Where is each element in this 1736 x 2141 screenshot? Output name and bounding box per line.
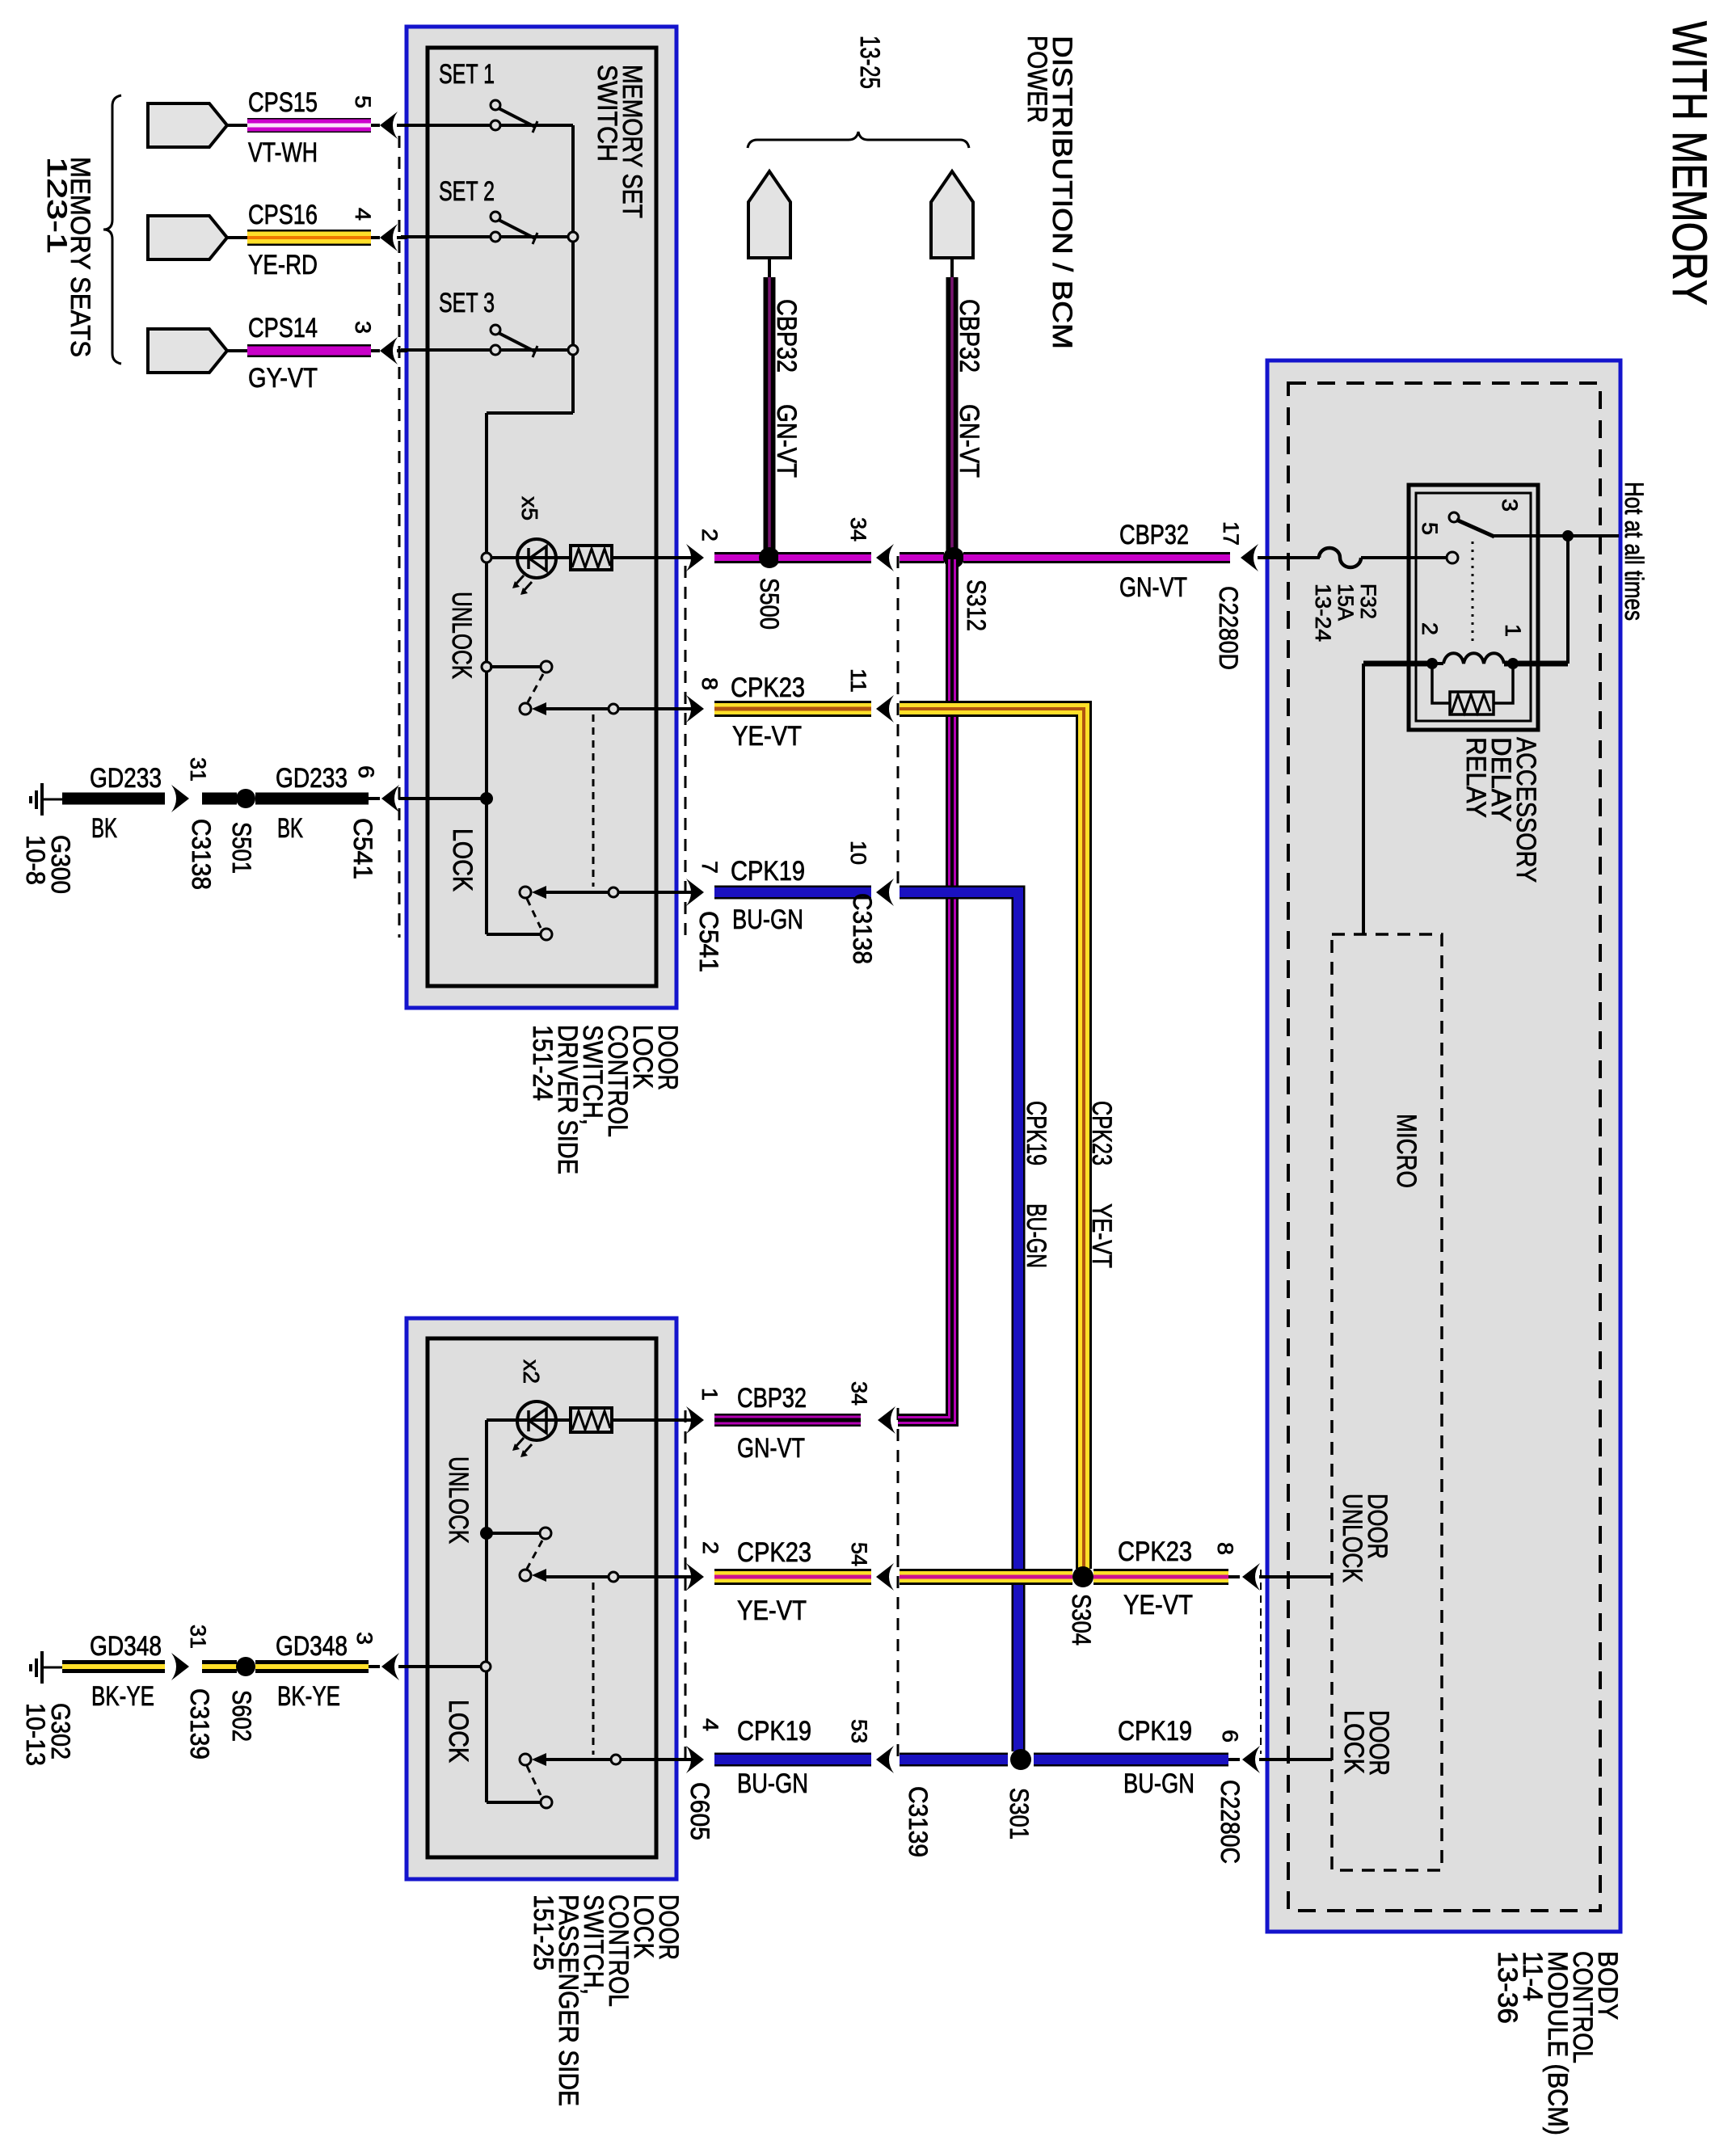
- wire CPK19 corner down: [900, 892, 1018, 1751]
- SET3 wire: [401, 348, 573, 352]
- svg-text:3: 3: [352, 1632, 377, 1645]
- BCM outer box: [1267, 360, 1620, 1932]
- svg-text:3: 3: [1498, 499, 1522, 512]
- svg-text:C2280C: C2280C: [1216, 1780, 1245, 1864]
- wire DOOR UNLOCK stub: [1259, 1575, 1332, 1578]
- pentagon A stub: [768, 256, 771, 279]
- wire DOOR LOCK stub: [1259, 1758, 1332, 1761]
- svg-text:CBP32: CBP32: [954, 299, 984, 373]
- connector plane C541 right: [685, 566, 687, 938]
- svg-text:CPK19: CPK19: [731, 856, 805, 887]
- passenger unlock moving contact: [520, 1570, 531, 1581]
- wire GD348 stub: [202, 1660, 237, 1673]
- ground G300 symbol: [40, 783, 44, 816]
- svg-text:GN-VT: GN-VT: [1119, 572, 1187, 603]
- connector plane C3138: [897, 556, 900, 892]
- relay resistor legs: [1432, 664, 1513, 703]
- SET1 lower terminal: [491, 120, 500, 130]
- passenger resistor: [571, 1408, 612, 1432]
- svg-text:GD233: GD233: [90, 763, 162, 794]
- svg-text:2: 2: [698, 1541, 723, 1554]
- svg-text:BU-GN: BU-GN: [737, 1768, 808, 1799]
- svg-text:S312: S312: [962, 580, 991, 631]
- relay resistor: [1450, 692, 1494, 714]
- connector plane C3139: [897, 1408, 900, 1764]
- svg-text:Hot at all times: Hot at all times: [1620, 482, 1649, 621]
- passenger unlock option circle: [609, 1572, 618, 1582]
- svg-text:YE-VT: YE-VT: [1086, 1203, 1117, 1268]
- arrow pin6 into C541: [369, 797, 380, 800]
- SET3 blade: [499, 333, 535, 352]
- svg-text:BU-GN: BU-GN: [1123, 1768, 1195, 1799]
- svg-text:SET 2: SET 2: [439, 176, 495, 207]
- wire C2280D to fuse: [1258, 556, 1320, 559]
- passenger unlock wire: [546, 1575, 692, 1578]
- svg-text:151-25: 151-25: [528, 1894, 558, 1970]
- driver unlock wire: [546, 707, 692, 710]
- svg-text:CBP32: CBP32: [737, 1383, 807, 1414]
- arrow 34 lower: [878, 1406, 895, 1434]
- passenger lock blade dashes: [527, 1766, 541, 1795]
- SET bus jog horizontal: [487, 411, 573, 415]
- splice S501: [236, 789, 255, 808]
- wire CBP32 S500 left: [714, 552, 761, 563]
- svg-text:2: 2: [1418, 622, 1442, 635]
- svg-text:GD348: GD348: [90, 1631, 162, 1662]
- svg-text:CPS16: CPS16: [248, 200, 318, 230]
- svg-text:31: 31: [186, 1625, 210, 1649]
- svg-text:F32: F32: [1356, 584, 1380, 619]
- passenger LED row wire: [487, 1418, 692, 1422]
- driver LED row wire: [487, 556, 692, 559]
- driver unlock bus terminal: [482, 662, 491, 672]
- SET2 lower terminal: [491, 232, 500, 242]
- driver pin6 wire: [398, 797, 487, 800]
- svg-text:CBP32: CBP32: [771, 299, 802, 373]
- driver unlock wire option circle: [609, 704, 618, 714]
- arrow 11 into C3138: [876, 695, 894, 723]
- splice S301: [1010, 1749, 1031, 1770]
- power distribution pentagon A: [748, 171, 790, 258]
- arrow 53: [876, 1746, 894, 1773]
- arrow 34 into C3138: [876, 544, 894, 571]
- svg-text:15A: 15A: [1334, 584, 1358, 621]
- svg-text:CPK19: CPK19: [1021, 1101, 1051, 1165]
- MICRO dashed box: [1332, 934, 1442, 1870]
- relay coil: [1432, 662, 1443, 665]
- svg-text:10-8: 10-8: [21, 835, 50, 885]
- fuse F32: [1319, 548, 1361, 567]
- svg-text:8: 8: [1213, 1542, 1237, 1555]
- wire CPK23 passenger segment: [714, 1569, 871, 1585]
- svg-text:CPK23: CPK23: [1118, 1536, 1192, 1567]
- svg-text:CPS15: CPS15: [248, 87, 318, 118]
- driver switch mech link: [592, 714, 595, 887]
- svg-text:UNLOCK: UNLOCK: [1337, 1494, 1367, 1583]
- driver unlock fixed contact: [541, 661, 552, 672]
- svg-text:BK-YE: BK-YE: [91, 1681, 154, 1712]
- driver lock wire option circle: [609, 887, 618, 897]
- arrow 31 into C3139: [171, 1653, 189, 1680]
- relay switch blade: [1456, 520, 1494, 537]
- svg-text:S501: S501: [227, 822, 256, 874]
- splice S312: [943, 547, 964, 568]
- svg-text:SWITCH: SWITCH: [592, 65, 622, 162]
- svg-text:CPS14: CPS14: [248, 313, 318, 343]
- passenger LED circle: [517, 1401, 556, 1440]
- svg-text:123-1: 123-1: [41, 157, 72, 254]
- memory set switch outer box: [407, 27, 676, 1008]
- svg-text:10: 10: [846, 841, 870, 865]
- wire GD348 right: [255, 1660, 369, 1673]
- driver unlock moving contact: [520, 703, 531, 714]
- svg-text:CPK23: CPK23: [731, 672, 805, 703]
- ground G302 symbol: [40, 1651, 44, 1684]
- svg-text:C3139: C3139: [904, 1786, 933, 1857]
- wire CPK23 S304 to BCM: [1093, 1569, 1228, 1585]
- svg-text:31: 31: [186, 757, 210, 782]
- svg-text:LOCK: LOCK: [443, 1700, 474, 1763]
- memory set switch inner box: [428, 48, 656, 986]
- svg-text:C3139: C3139: [185, 1688, 214, 1760]
- driver pin2 arrow: [686, 544, 704, 571]
- wire fuse to relay pin5: [1361, 556, 1447, 559]
- svg-text:S304: S304: [1067, 1594, 1096, 1646]
- passenger pin1 arrow: [686, 1406, 704, 1434]
- SET1 wire: [401, 124, 573, 127]
- svg-text:2: 2: [697, 529, 722, 542]
- splice S602: [236, 1657, 255, 1676]
- svg-text:C541: C541: [694, 911, 723, 972]
- power distribution pentagon B: [931, 171, 973, 258]
- svg-text:S602: S602: [227, 1690, 256, 1742]
- wire stub CPS14: [225, 349, 249, 352]
- arrow into C541 CPS14: [371, 349, 380, 352]
- svg-text:x2: x2: [519, 1359, 544, 1384]
- svg-text:UNLOCK: UNLOCK: [443, 1456, 474, 1544]
- wire CPS14 to switch: [397, 349, 407, 352]
- memory seat connector pentagon CPS15: [148, 103, 227, 147]
- driver pin8 arrow: [686, 695, 704, 723]
- svg-text:CPK23: CPK23: [737, 1537, 811, 1568]
- wire GD348 left: [62, 1660, 165, 1673]
- svg-text:C541: C541: [348, 818, 377, 879]
- driver LED emission arrows: [516, 575, 524, 584]
- svg-text:5: 5: [1418, 522, 1442, 535]
- svg-text:6: 6: [354, 765, 378, 778]
- svg-text:3: 3: [351, 321, 375, 334]
- wire CPS15 VT-WH: [247, 118, 371, 133]
- wire CPK19 segment: [714, 886, 871, 900]
- svg-text:GN-VT: GN-VT: [954, 404, 984, 478]
- svg-text:1: 1: [697, 1388, 722, 1401]
- svg-text:YE-VT: YE-VT: [1123, 1590, 1193, 1621]
- svg-text:GN-VT: GN-VT: [737, 1433, 805, 1464]
- wire CBP32 S312 to C2280D: [963, 552, 1230, 563]
- svg-text:BU-GN: BU-GN: [1021, 1203, 1051, 1268]
- driver resistor: [571, 546, 612, 570]
- driver lock blade dashes: [527, 899, 541, 928]
- svg-text:4: 4: [351, 208, 375, 221]
- passenger pin4 arrow: [686, 1746, 704, 1773]
- junction pin3/pin1: [1562, 530, 1574, 542]
- svg-text:YE-VT: YE-VT: [732, 721, 802, 752]
- svg-text:CPK19: CPK19: [737, 1716, 811, 1747]
- pentagon B stub: [950, 256, 954, 279]
- svg-text:C605: C605: [685, 1782, 714, 1840]
- relay pin5 terminal: [1447, 552, 1458, 563]
- wire GD233 BK right: [255, 793, 369, 805]
- wire pin6 to switch: [398, 797, 485, 800]
- svg-text:S301: S301: [1005, 1788, 1034, 1840]
- driver LED circle: [517, 539, 556, 578]
- wire CBP32 dark corner: [898, 559, 955, 1423]
- wire pin1 riser: [1566, 536, 1570, 664]
- relay coil wire right: [1504, 661, 1568, 667]
- passenger unlock fixed contact: [540, 1528, 551, 1539]
- memory seat connector pentagon CPS16: [148, 216, 227, 259]
- SET1 blade: [499, 108, 535, 127]
- passenger pin3 wire: [398, 1665, 486, 1668]
- SET bus vertical: [571, 125, 575, 413]
- driver lock bus stub: [487, 933, 540, 936]
- wire CPK23 corner down: [900, 709, 1084, 1569]
- svg-text:34: 34: [847, 1381, 871, 1406]
- passenger unlock blade dashes: [527, 1540, 542, 1569]
- relay coil wire left: [1363, 661, 1432, 667]
- wire CPK19 passenger segment: [714, 1753, 871, 1767]
- splice S304: [1072, 1566, 1093, 1587]
- passenger unlock stub: [487, 1532, 541, 1535]
- wire CPS16 YE-RD: [247, 230, 371, 246]
- svg-text:RELAY: RELAY: [1460, 737, 1491, 818]
- wire GD233 stub: [202, 793, 237, 805]
- SET2 wire: [401, 235, 573, 238]
- svg-text:GY-VT: GY-VT: [248, 363, 318, 394]
- wire CPK23 C3139 to S304: [900, 1569, 1072, 1585]
- svg-text:C3138: C3138: [848, 893, 877, 964]
- passenger pin3 bus junction: [481, 1662, 491, 1671]
- svg-text:CPK23: CPK23: [1086, 1101, 1117, 1165]
- svg-text:YE-RD: YE-RD: [248, 250, 318, 280]
- wire stub CPS15: [225, 124, 249, 127]
- svg-text:10-13: 10-13: [21, 1703, 50, 1766]
- driver unlock blade dashes: [528, 674, 543, 702]
- svg-text:SET 1: SET 1: [439, 59, 495, 90]
- SET2 upper terminal: [491, 212, 500, 221]
- svg-text:VT-WH: VT-WH: [248, 137, 318, 168]
- arrow pin6 bcm: [1228, 1758, 1240, 1761]
- wire CBP32 vertical from pentagon A: [764, 277, 776, 553]
- svg-text:151-24: 151-24: [527, 1025, 558, 1101]
- passenger mech link: [592, 1583, 595, 1755]
- splice S500: [759, 547, 780, 568]
- wire stub CPS16: [225, 236, 249, 239]
- svg-text:7: 7: [697, 861, 722, 874]
- svg-text:C3138: C3138: [187, 819, 216, 890]
- svg-text:CBP32: CBP32: [1119, 520, 1189, 550]
- wire CBP32 S500 to C3138: [778, 552, 871, 563]
- driver lock wire: [546, 891, 692, 894]
- SET3 lower terminal: [491, 345, 500, 355]
- driver LED triangle: [529, 546, 546, 571]
- wire CPK23 segment: [714, 701, 871, 717]
- wire CPS16 to switch: [397, 236, 407, 239]
- power distribution brace: [748, 132, 969, 148]
- svg-text:1: 1: [1501, 624, 1525, 637]
- svg-text:BK-YE: BK-YE: [277, 1681, 340, 1712]
- accessory delay relay outer box: [1409, 485, 1538, 730]
- SET1 upper terminal: [491, 100, 500, 110]
- driver pin6 bus junction dot: [480, 792, 493, 805]
- wire CPS14 GY-VT: [247, 344, 371, 357]
- svg-text:LOCK: LOCK: [447, 828, 478, 891]
- svg-text:6: 6: [1218, 1730, 1242, 1743]
- svg-text:34: 34: [846, 517, 870, 542]
- driver pin7 arrow: [686, 879, 704, 906]
- passenger unlock bus junction dot: [480, 1527, 493, 1540]
- driver LED bus terminal: [482, 553, 491, 563]
- wire CPS15 to switch: [397, 124, 407, 127]
- svg-text:13-25: 13-25: [854, 36, 885, 89]
- passenger lock option circle: [611, 1755, 621, 1764]
- arrow into C541 CPS15: [371, 124, 380, 127]
- arrow 10 into C3138: [876, 879, 894, 906]
- wire CBP32 vertical from pentagon B: [946, 277, 959, 553]
- svg-text:YE-VT: YE-VT: [737, 1595, 807, 1626]
- svg-text:13-24: 13-24: [1311, 584, 1335, 642]
- svg-text:GD348: GD348: [276, 1631, 348, 1662]
- accessory delay relay inner box: [1416, 493, 1531, 721]
- relay switch pivot: [1449, 512, 1459, 522]
- arrow 54: [876, 1563, 894, 1591]
- svg-text:BK: BK: [91, 813, 117, 844]
- svg-text:C2280D: C2280D: [1214, 586, 1243, 670]
- passenger switch outer box: [407, 1318, 676, 1879]
- SET2 blade: [499, 220, 535, 238]
- svg-text:54: 54: [847, 1542, 871, 1566]
- arrow into C541 CPS16: [371, 236, 380, 239]
- arrow pin8 bcm: [1228, 1575, 1240, 1578]
- svg-text:LOCK: LOCK: [1338, 1710, 1369, 1774]
- driver box left bus: [485, 413, 488, 934]
- svg-text:S500: S500: [755, 578, 784, 630]
- wire CBP32 dark segment: [714, 1414, 861, 1427]
- svg-text:5: 5: [351, 95, 375, 108]
- svg-text:GN-VT: GN-VT: [771, 404, 802, 478]
- relay mech dotted line: [1472, 542, 1474, 647]
- svg-text:MICRO: MICRO: [1391, 1114, 1422, 1188]
- wire relay pin3 to hot: [1494, 534, 1619, 537]
- passenger LED emission arrows: [516, 1438, 524, 1447]
- driver lock moving contact: [520, 887, 531, 898]
- passenger lock wire: [546, 1758, 692, 1761]
- wire CPK19 S301 to BCM: [1034, 1753, 1228, 1767]
- connector plane C541 left: [398, 136, 401, 938]
- svg-text:17: 17: [1219, 521, 1243, 546]
- wire GD233 BK left: [62, 793, 165, 805]
- svg-text:8: 8: [697, 677, 722, 690]
- svg-text:SET 3: SET 3: [439, 288, 495, 318]
- svg-text:11: 11: [846, 668, 870, 693]
- arrow 31 into C3138: [171, 785, 189, 812]
- driver unlock stub: [490, 665, 541, 668]
- passenger lock fixed contact: [541, 1797, 552, 1808]
- svg-text:WITH MEMORY: WITH MEMORY: [1662, 21, 1717, 306]
- svg-text:UNLOCK: UNLOCK: [446, 592, 477, 679]
- connector plane C605 right: [685, 1410, 687, 1766]
- wire coil to micro: [1362, 664, 1365, 934]
- wire CBP32 C3138 to S312: [900, 552, 944, 563]
- passenger lock moving contact: [520, 1754, 531, 1765]
- BCM inner dashed box: [1288, 383, 1600, 1911]
- svg-text:x5: x5: [517, 496, 542, 520]
- arrow pin3 into C605: [369, 1665, 380, 1668]
- svg-text:BK: BK: [277, 813, 303, 844]
- svg-text:53: 53: [847, 1719, 871, 1743]
- wire CPK19 C3139 to S301: [900, 1753, 1008, 1767]
- passenger left bus: [485, 1420, 488, 1802]
- passenger pin2 arrow: [686, 1563, 704, 1591]
- passenger switch inner box: [428, 1338, 656, 1857]
- memory seats brace: [103, 95, 121, 364]
- arrow into C2280D: [1241, 544, 1258, 571]
- svg-text:13-36: 13-36: [1492, 1951, 1523, 2024]
- svg-text:DISTRIBUTION / BCM: DISTRIBUTION / BCM: [1047, 36, 1077, 349]
- svg-text:BU-GN: BU-GN: [732, 904, 803, 935]
- memory seat connector pentagon CPS14: [148, 329, 227, 373]
- svg-text:CPK19: CPK19: [1118, 1716, 1192, 1747]
- svg-text:GD233: GD233: [276, 763, 348, 794]
- passenger lock bus stub: [487, 1801, 540, 1804]
- SET3 bus junction: [568, 345, 578, 355]
- SET2 bus junction: [568, 232, 578, 242]
- connector plane C2280 (BCM): [1260, 1570, 1262, 1754]
- SET3 upper terminal: [491, 325, 500, 335]
- driver lock fixed contact: [541, 929, 552, 940]
- svg-text:4: 4: [698, 1718, 723, 1731]
- passenger LED triangle: [529, 1409, 546, 1433]
